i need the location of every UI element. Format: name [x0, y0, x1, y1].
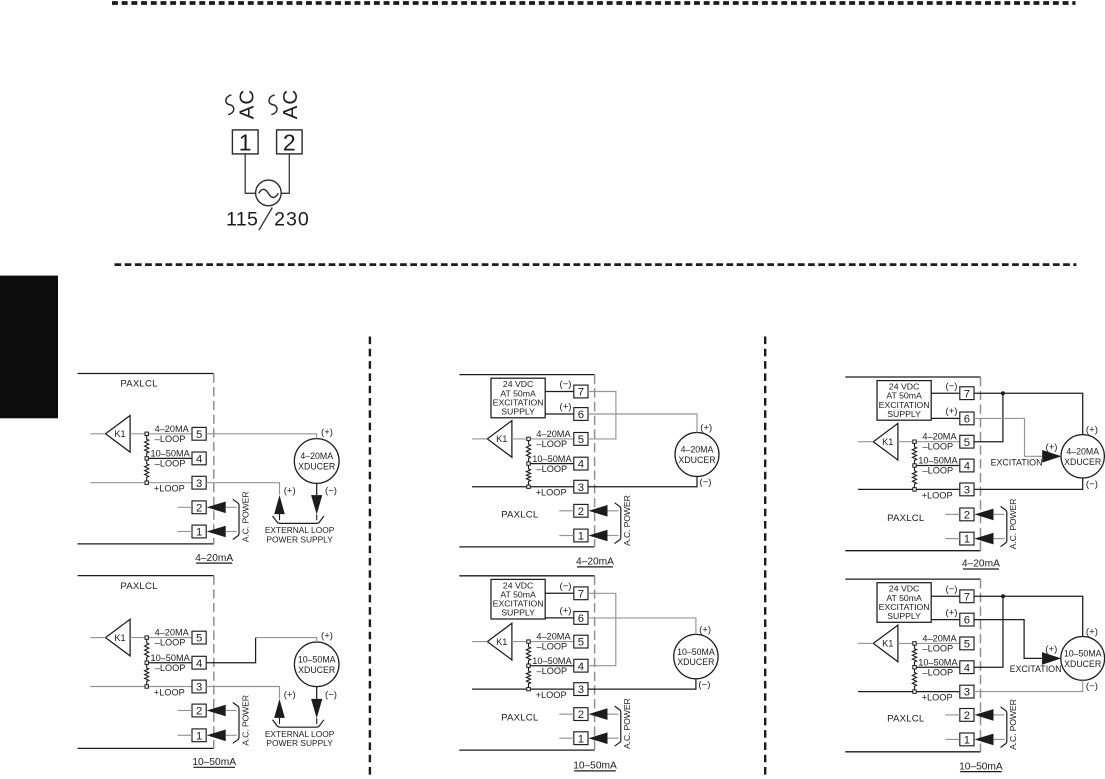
node at +LOOP terminal 3 row (D4)	[527, 687, 530, 690]
svg-text:2: 2	[578, 506, 584, 518]
PAXLCL terminal 5 (D2)	[192, 631, 206, 644]
svg-text:2: 2	[283, 129, 296, 155]
PAXLCL terminal 6 (D3)	[574, 408, 588, 421]
svg-text:(+): (+)	[1046, 442, 1058, 453]
svg-text:7: 7	[578, 588, 584, 600]
terminal 1 (AC power)	[232, 130, 258, 154]
transducer XDUCER (4-20MA) (D3)	[675, 433, 719, 477]
A.C. POWER brace (D4)	[615, 706, 621, 746]
svg-text:K1: K1	[114, 429, 125, 439]
PAXLCL terminal 1 (D5)	[960, 532, 974, 545]
PAXLCL meter outline bottom edge (D4)	[459, 749, 594, 751]
wire stub into terminal 1 (D1)	[178, 531, 193, 533]
svg-text:–LOOP: –LOOP	[155, 434, 186, 444]
svg-text:5: 5	[196, 429, 202, 441]
PAXLCL terminal 2 (D5)	[960, 508, 974, 521]
svg-text:+LOOP: +LOOP	[154, 484, 185, 494]
svg-text:1: 1	[196, 527, 202, 539]
PAXLCL terminal 7 (D3)	[574, 385, 588, 398]
svg-text:1: 1	[578, 733, 584, 745]
transducer XDUCER (10-50MA) (D2)	[294, 642, 339, 687]
svg-text:SUPPLY: SUPPLY	[501, 407, 535, 417]
wire transducer (-) to external supply (D2)	[316, 687, 318, 699]
svg-text:A.C. POWER: A.C. POWER	[622, 698, 632, 749]
PAXLCL meter outline bottom edge (D6)	[845, 751, 980, 753]
svg-text:4–20MA: 4–20MA	[300, 451, 333, 461]
node at +LOOP terminal 3 row (D1)	[145, 481, 148, 484]
+LOOP wire into terminal 3 (D2)	[90, 686, 192, 688]
wire K1 output to -LOOP node (D5)	[898, 441, 915, 443]
svg-text:A.C. POWER: A.C. POWER	[240, 492, 250, 543]
svg-text:10–50MA: 10–50MA	[918, 456, 958, 466]
wire terminal 6 to excitation arrow (D6)	[974, 620, 1044, 659]
PAXLCL terminal 4 (D5)	[960, 459, 974, 472]
wire terminal 6 to transducer (+) (D4)	[588, 618, 696, 635]
wire node to terminal 5 (D5)	[915, 441, 960, 443]
wire terminal 5 to transducer (+) (D1)	[206, 434, 317, 439]
svg-text:POWER SUPPLY: POWER SUPPLY	[266, 738, 333, 748]
svg-text:4–20mA: 4–20mA	[576, 557, 614, 568]
A.C. POWER brace (D5)	[1001, 506, 1007, 546]
svg-text:K1: K1	[496, 637, 507, 647]
wire excitation supply (-) to terminal 7 (D5)	[931, 392, 960, 394]
wire excitation supply (+) to terminal 6 (D4)	[545, 617, 574, 619]
resistor (range scaling, 10-50mA) between node 4 and node 3 (D5)	[912, 467, 916, 488]
svg-text:–LOOP: –LOOP	[923, 643, 954, 653]
svg-text:XDUCER: XDUCER	[298, 462, 335, 472]
PAXLCL terminal 6 (D5)	[960, 412, 974, 425]
svg-text:AC: AC	[236, 89, 259, 119]
node at -LOOP terminal 5 row (D3)	[527, 437, 530, 440]
svg-text:PAXLCL: PAXLCL	[120, 379, 158, 390]
svg-text:K1: K1	[882, 639, 893, 649]
excitation arrow into transducer (D5)	[1042, 450, 1061, 463]
wire stub into terminal 1 (D5)	[945, 538, 960, 540]
A.C. power arrow into terminal 1 (D1)	[207, 526, 226, 538]
resistor (range scaling, 4-20mA) between node 5 and node 4 (D2)	[145, 639, 149, 661]
A.C. POWER brace (D2)	[233, 703, 239, 744]
wire K1 output to -LOOP node (D2)	[130, 637, 147, 639]
svg-text:+LOOP: +LOOP	[536, 690, 567, 700]
wire stub into terminal 1 (D6)	[945, 738, 960, 740]
PAXLCL terminal 1 (D2)	[192, 729, 206, 742]
PAXLCL terminal 7 (D6)	[960, 590, 974, 603]
wire stub into terminal 2 (D6)	[945, 714, 960, 716]
svg-text:10–50MA: 10–50MA	[1064, 649, 1102, 659]
PAXLCL meter outline top edge (D1)	[78, 373, 214, 375]
svg-text:4: 4	[964, 461, 970, 473]
A.C. power arrow into terminal 1 (D2)	[207, 730, 226, 742]
svg-text:(+): (+)	[284, 690, 296, 701]
A.C. POWER brace (D1)	[233, 499, 239, 539]
svg-text:10–50MA: 10–50MA	[677, 647, 715, 657]
svg-text:(+): (+)	[700, 423, 712, 434]
A.C. power arrow into terminal 2 (D6)	[975, 709, 994, 721]
node at -LOOP terminal 4 row (D3)	[527, 462, 530, 465]
svg-text:EXCITATION: EXCITATION	[1010, 664, 1062, 674]
svg-text:XDUCER: XDUCER	[678, 455, 715, 465]
svg-text:2: 2	[964, 510, 970, 522]
svg-text:1: 1	[578, 531, 584, 543]
PAXLCL terminal 3 (D1)	[192, 476, 206, 489]
AC sine symbol inside source	[259, 189, 279, 197]
svg-text:(+): (+)	[1086, 425, 1098, 436]
PAXLCL terminal 1 (D3)	[574, 529, 588, 542]
wire K1 output to -LOOP node (D6)	[898, 642, 915, 644]
op-amp K1 (D1)	[106, 416, 131, 453]
junction dot on terminal 7 wire (D5)	[1001, 391, 1005, 395]
svg-text:10–50mA: 10–50mA	[192, 757, 236, 768]
PAXLCL meter outline dashed right edge (D3)	[594, 375, 596, 547]
svg-text:1: 1	[196, 730, 202, 742]
wire terminal 3 to transducer (-) (D5)	[974, 478, 1083, 489]
PAXLCL meter outline dashed right edge (D6)	[980, 579, 982, 752]
svg-text:3: 3	[196, 682, 202, 694]
resistor (range scaling, 4-20mA) between node 5 and node 4 (D4)	[526, 643, 530, 664]
wire terminal 6 to excitation arrow (D5)	[974, 418, 1044, 456]
resistor (range scaling, 10-50mA) between node 4 and node 3 (D6)	[912, 669, 916, 690]
arrow external supply negative lead (D2)	[311, 699, 322, 718]
24 VDC AT 50mA excitation supply box (D6)	[877, 583, 931, 623]
svg-text:(+): (+)	[560, 606, 572, 617]
svg-text:10–50MA: 10–50MA	[918, 657, 958, 667]
wire junction down to terminal 5 (D5)	[974, 393, 1003, 442]
svg-text:+LOOP: +LOOP	[922, 693, 953, 703]
PAXLCL meter outline top edge (D2)	[78, 575, 214, 577]
PAXLCL meter outline bottom edge (D3)	[459, 546, 594, 548]
svg-text:(−): (−)	[1086, 479, 1098, 490]
svg-text:1: 1	[964, 534, 970, 546]
resistor (range scaling, 4-20mA) between node 5 and node 4 (D5)	[912, 443, 916, 463]
svg-text:+LOOP: +LOOP	[536, 488, 567, 498]
junction dot on terminal 7 wire (D6)	[1001, 594, 1005, 598]
svg-text:3: 3	[964, 485, 970, 497]
svg-text:4: 4	[578, 661, 584, 673]
svg-text:(+): (+)	[699, 625, 711, 636]
svg-text:PAXLCL: PAXLCL	[887, 714, 925, 725]
svg-text:4–20mA: 4–20mA	[962, 559, 1000, 570]
PAXLCL meter outline top edge (D6)	[845, 578, 980, 580]
arrow external supply negative lead (D1)	[311, 495, 322, 514]
PAXLCL terminal 3 (D2)	[192, 680, 206, 693]
PAXLCL terminal 3 (D3)	[574, 480, 588, 493]
svg-text:(+): (+)	[321, 631, 333, 642]
svg-text:A.C. POWER: A.C. POWER	[622, 495, 632, 546]
svg-text:SUPPLY: SUPPLY	[887, 611, 921, 621]
svg-text:7: 7	[964, 388, 970, 400]
svg-text:K1: K1	[114, 633, 125, 643]
node at -LOOP terminal 4 row (D1)	[145, 457, 148, 460]
wire into K1 input (D5)	[858, 441, 873, 443]
PAXLCL terminal 2 (D6)	[960, 709, 974, 722]
svg-text:EXCITATION: EXCITATION	[991, 458, 1043, 468]
op-amp K1 (D6)	[873, 625, 898, 662]
svg-text:4: 4	[964, 662, 970, 674]
svg-text:6: 6	[964, 615, 970, 627]
svg-text:–LOOP: –LOOP	[537, 439, 568, 449]
PAXLCL meter outline top edge (D3)	[459, 374, 594, 376]
svg-text:6: 6	[578, 409, 584, 421]
PAXLCL terminal 1 (D6)	[960, 733, 974, 746]
svg-text:5: 5	[964, 437, 970, 449]
AC waveform squiggle for terminal 1	[226, 95, 234, 115]
svg-text:115: 115	[226, 208, 258, 230]
PAXLCL terminal 5 (D4)	[574, 635, 588, 648]
svg-text:7: 7	[578, 387, 584, 399]
svg-text:XDUCER: XDUCER	[1064, 659, 1101, 669]
svg-text:SUPPLY: SUPPLY	[887, 409, 921, 419]
svg-text:PAXLCL: PAXLCL	[120, 581, 158, 592]
resistor (range scaling, 10-50mA) between node 4 and node 3 (D3)	[526, 465, 530, 485]
svg-text:3: 3	[964, 687, 970, 699]
node at +LOOP terminal 3 row (D6)	[913, 690, 916, 693]
svg-text:3: 3	[196, 478, 202, 490]
wire transducer (-) to terminal 3 (D4)	[588, 679, 696, 689]
PAXLCL terminal 2 (D3)	[574, 504, 588, 517]
svg-text:4–20MA: 4–20MA	[922, 432, 957, 442]
resistor (range scaling, 4-20mA) between node 5 and node 4 (D6)	[912, 645, 916, 665]
resistor (range scaling, 4-20mA) between node 5 and node 4 (D3)	[526, 441, 530, 462]
svg-text:PAXLCL: PAXLCL	[501, 713, 539, 724]
svg-text:3: 3	[578, 684, 584, 696]
A.C. POWER brace (D6)	[1001, 707, 1007, 748]
svg-text:+LOOP: +LOOP	[154, 688, 185, 698]
wire K1 output to -LOOP node (D1)	[130, 433, 147, 435]
PAXLCL terminal 6 (D4)	[574, 612, 588, 625]
wire terminal 3 to external supply (+) (D1)	[206, 483, 279, 495]
PAXLCL meter outline top edge (D4)	[459, 575, 594, 577]
wire K1 output to -LOOP node (D4)	[512, 641, 529, 643]
node at -LOOP terminal 5 row (D1)	[145, 432, 148, 435]
wire into K1 input (D6)	[858, 642, 873, 644]
A.C. power arrow into terminal 2 (D5)	[975, 509, 994, 521]
wire node to terminal 4 (D6)	[915, 666, 960, 668]
wire stub into terminal 1 (D2)	[178, 734, 193, 736]
PAXLCL meter outline top edge (D5)	[845, 376, 980, 378]
svg-text:5: 5	[964, 639, 970, 651]
svg-text:A.C. POWER: A.C. POWER	[240, 695, 250, 746]
svg-text:4–20MA: 4–20MA	[922, 633, 957, 643]
svg-text:A.C. POWER: A.C. POWER	[1008, 699, 1018, 750]
PAXLCL terminal 1 (D1)	[192, 525, 206, 538]
svg-text:10–50mA: 10–50mA	[959, 761, 1003, 772]
transducer XDUCER (10-50MA) (D6)	[1061, 637, 1105, 681]
node at -LOOP terminal 5 row (D2)	[145, 636, 148, 639]
resistor (range scaling, 10-50mA) between node 4 and node 3 (D1)	[145, 460, 149, 481]
wire excitation supply (+) to terminal 6 (D3)	[545, 413, 574, 415]
excitation arrow into transducer (D6)	[1042, 652, 1061, 665]
svg-text:–LOOP: –LOOP	[155, 663, 186, 673]
svg-text:10–50mA: 10–50mA	[573, 761, 617, 772]
resistor (range scaling, 10-50mA) between node 4 and node 3 (D4)	[526, 667, 530, 687]
svg-text:230: 230	[274, 208, 310, 230]
PAXLCL meter outline dashed right edge (D4)	[594, 576, 596, 750]
svg-text:–LOOP: –LOOP	[155, 459, 186, 469]
PAXLCL meter outline dashed right edge (D1)	[213, 374, 215, 544]
+LOOP wire into terminal 3 (D1)	[90, 482, 192, 484]
node at -LOOP terminal 4 row (D6)	[913, 666, 916, 669]
svg-text:10–50MA: 10–50MA	[150, 653, 190, 663]
PAXLCL terminal 3 (D5)	[960, 483, 974, 496]
A.C. power arrow into terminal 2 (D4)	[589, 708, 608, 720]
PAXLCL terminal 1 (D4)	[574, 732, 588, 745]
node at -LOOP terminal 5 row (D4)	[527, 640, 530, 643]
wire terminal 2 to AC source	[281, 154, 289, 193]
resistor (range scaling, 10-50mA) between node 4 and node 3 (D2)	[145, 664, 149, 684]
transducer XDUCER (10-50MA) (D4)	[674, 634, 718, 678]
wire node to terminal 4 (D3)	[529, 463, 574, 465]
resistor (range scaling, 4-20mA) between node 5 and node 4 (D1)	[145, 436, 149, 457]
arrow external supply positive lead (D2)	[274, 699, 285, 718]
svg-text:PAXLCL: PAXLCL	[501, 509, 539, 520]
24 VDC AT 50mA excitation supply box (D4)	[491, 579, 545, 619]
svg-text:4: 4	[196, 454, 202, 466]
24 VDC AT 50mA excitation supply box (D3)	[491, 378, 545, 418]
+LOOP wire into terminal 3 (D4)	[472, 688, 574, 690]
svg-text:K1: K1	[496, 434, 507, 444]
svg-text:4: 4	[196, 658, 202, 670]
svg-text:4–20mA: 4–20mA	[195, 553, 233, 564]
svg-text:K1: K1	[882, 437, 893, 447]
svg-text:XDUCER: XDUCER	[298, 665, 335, 675]
svg-text:4–20MA: 4–20MA	[536, 429, 571, 439]
wire node to terminal 5 (D3)	[529, 438, 574, 440]
op-amp K1 (D4)	[487, 623, 512, 660]
wire stub into terminal 2 (D4)	[559, 713, 574, 715]
svg-text:4: 4	[578, 459, 584, 471]
svg-text:(−): (−)	[698, 679, 710, 690]
svg-text:A.C. POWER: A.C. POWER	[1008, 499, 1018, 550]
svg-text:1: 1	[964, 735, 970, 747]
wire terminal 4 to transducer (+) (D2)	[206, 638, 255, 663]
svg-text:7: 7	[964, 591, 970, 603]
svg-text:(+): (+)	[560, 402, 572, 413]
wire K1 output to -LOOP node (D3)	[512, 438, 529, 440]
op-amp K1 (D5)	[873, 423, 898, 460]
PAXLCL meter outline bottom edge (D1)	[78, 543, 214, 545]
svg-text:(+): (+)	[1086, 627, 1098, 638]
PAXLCL terminal 5 (D1)	[192, 427, 206, 440]
A.C. power arrow into terminal 2 (D3)	[589, 505, 608, 517]
svg-text:5: 5	[578, 434, 584, 446]
wire excitation supply (-) to terminal 7 (D3)	[545, 391, 574, 393]
op-amp K1 (D2)	[106, 619, 131, 656]
A.C. power arrow into terminal 1 (D4)	[589, 732, 608, 744]
PAXLCL terminal 4 (D2)	[192, 656, 206, 669]
wire stub into terminal 2 (D5)	[945, 513, 960, 515]
svg-text:–LOOP: –LOOP	[923, 466, 954, 476]
page top dashed border	[112, 1, 1076, 5]
wire excitation supply (+) to terminal 6 (D5)	[931, 417, 960, 419]
svg-text:5: 5	[578, 637, 584, 649]
wire stub into terminal 1 (D3)	[559, 535, 574, 537]
PAXLCL terminal 5 (D3)	[574, 433, 588, 446]
AC waveform squiggle for terminal 2	[269, 95, 277, 115]
wire node to terminal 4 (D1)	[147, 457, 192, 459]
svg-text:2: 2	[578, 709, 584, 721]
svg-text:(−): (−)	[325, 486, 337, 497]
PAXLCL terminal 2 (D4)	[574, 708, 588, 721]
PAXLCL terminal 3 (D6)	[960, 685, 974, 698]
svg-text:2: 2	[964, 710, 970, 722]
wire stub into terminal 1 (D4)	[559, 737, 574, 739]
svg-text:XDUCER: XDUCER	[677, 657, 714, 667]
wire terminal 1 to AC source	[245, 154, 256, 193]
PAXLCL terminal 4 (D3)	[574, 457, 588, 470]
wire excitation supply (-) to terminal 7 (D4)	[545, 592, 574, 594]
svg-text:(−): (−)	[946, 584, 958, 595]
svg-text:4–20MA: 4–20MA	[155, 628, 190, 638]
node at +LOOP terminal 3 row (D5)	[913, 488, 916, 491]
svg-text:6: 6	[578, 613, 584, 625]
PAXLCL meter outline bottom edge (D2)	[78, 747, 214, 749]
svg-text:–LOOP: –LOOP	[537, 666, 568, 676]
PAXLCL terminal 3 (D4)	[574, 683, 588, 696]
svg-text:4–20MA: 4–20MA	[536, 632, 571, 642]
PAXLCL terminal 5 (D6)	[960, 637, 974, 650]
wire terminal 6 to transducer (+) (D3)	[588, 414, 697, 433]
svg-text:–LOOP: –LOOP	[155, 638, 186, 648]
svg-text:–LOOP: –LOOP	[537, 464, 568, 474]
external loop power supply bracket (D1)	[273, 516, 324, 523]
wire node to terminal 5 (D4)	[529, 641, 574, 643]
svg-text:+LOOP: +LOOP	[922, 490, 953, 500]
svg-text:(+): (+)	[284, 486, 296, 497]
PAXLCL terminal 4 (D1)	[192, 452, 206, 465]
PAXLCL meter outline bottom edge (D5)	[845, 550, 980, 552]
svg-text:(+): (+)	[321, 427, 333, 438]
svg-text:AC: AC	[279, 89, 302, 119]
A.C. POWER brace (D3)	[615, 503, 621, 544]
svg-text:(−): (−)	[560, 581, 572, 592]
column separator dashed line (left)	[369, 337, 371, 779]
arrow external supply positive lead (D1)	[274, 495, 285, 514]
svg-text:(+): (+)	[946, 607, 958, 618]
node at +LOOP terminal 3 row (D3)	[527, 485, 530, 488]
PAXLCL terminal 7 (D5)	[960, 387, 974, 400]
external loop power supply bracket (D2)	[273, 720, 324, 727]
wire transducer (-) to external supply (D1)	[316, 483, 318, 495]
A.C. power arrow into terminal 1 (D5)	[975, 533, 994, 545]
wire terminal 7 to transducer (+) (D5)	[974, 393, 1083, 434]
node at -LOOP terminal 5 row (D5)	[913, 440, 916, 443]
svg-text:–LOOP: –LOOP	[923, 442, 954, 452]
svg-text:(−): (−)	[700, 477, 712, 488]
svg-text:5: 5	[196, 633, 202, 645]
svg-text:–LOOP: –LOOP	[537, 642, 568, 652]
terminal 2 (AC power)	[277, 130, 303, 154]
svg-text:XDUCER: XDUCER	[1064, 457, 1101, 467]
PAXLCL terminal 6 (D6)	[960, 613, 974, 626]
PAXLCL terminal 7 (D4)	[574, 587, 588, 600]
svg-text:10–50MA: 10–50MA	[150, 449, 190, 459]
transducer XDUCER (4-20MA) (D5)	[1061, 435, 1104, 478]
svg-text:(−): (−)	[946, 381, 958, 392]
node at +LOOP terminal 3 row (D2)	[145, 685, 148, 688]
section divider dashed line	[115, 263, 1077, 266]
svg-text:POWER SUPPLY: POWER SUPPLY	[266, 534, 333, 544]
+LOOP wire into terminal 3 (D5)	[858, 488, 960, 490]
PAXLCL terminal 2 (D2)	[192, 704, 206, 717]
svg-text:(+): (+)	[946, 406, 958, 417]
svg-text:SUPPLY: SUPPLY	[501, 608, 535, 618]
svg-text:4–20MA: 4–20MA	[681, 445, 714, 455]
op-amp K1 (D3)	[487, 421, 512, 458]
wire into K1 input (D2)	[90, 637, 105, 639]
AC source circle 115/230	[256, 180, 282, 206]
A.C. power arrow into terminal 1 (D3)	[589, 530, 608, 542]
svg-text:(−): (−)	[560, 379, 572, 390]
